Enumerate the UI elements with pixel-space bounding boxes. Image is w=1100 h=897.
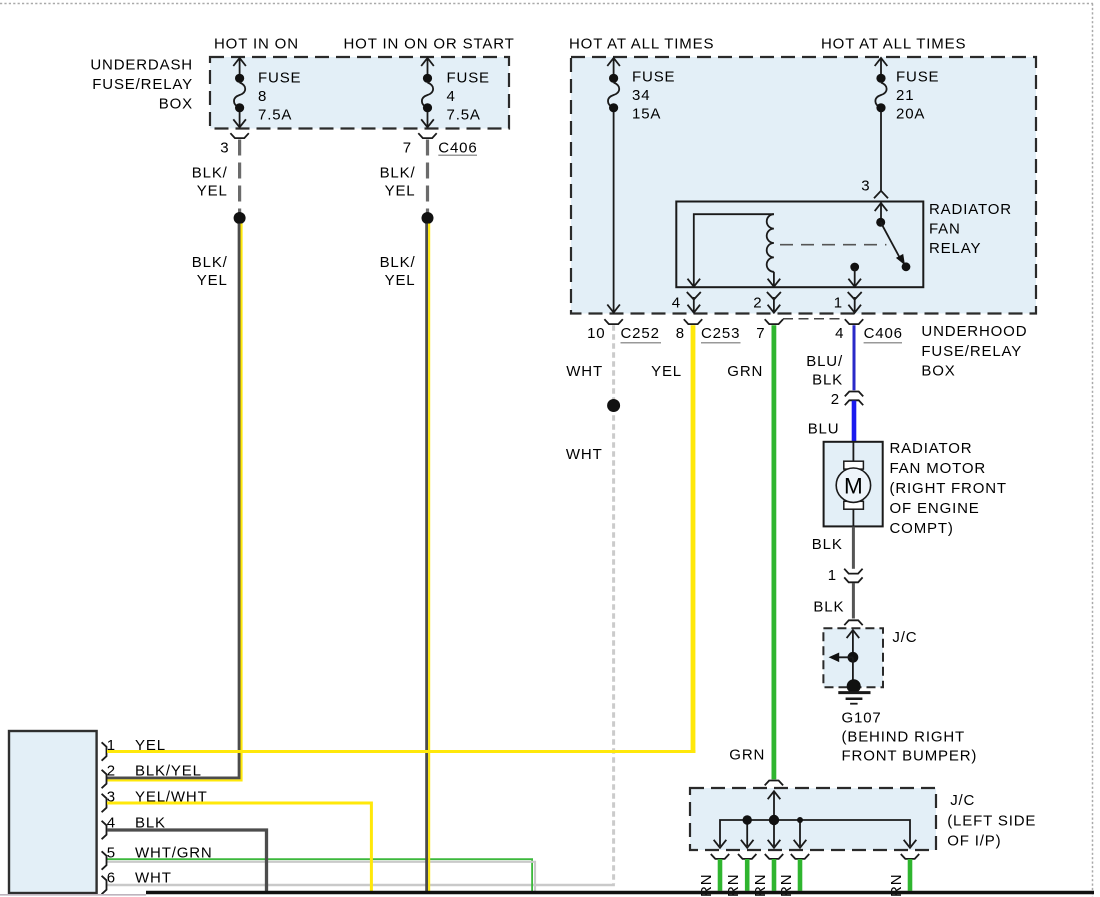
label BLK/YEL (left lower) — [192, 254, 228, 289]
svg-text:10: 10 — [587, 325, 605, 342]
svg-text:J/C: J/C — [950, 792, 975, 809]
label FUSE 4 7.5A — [447, 70, 490, 124]
wire BLK from motor — [852, 527, 855, 569]
label BLK/YEL (right lower) — [380, 254, 416, 289]
relay linkage dashed line — [780, 244, 886, 246]
wire BLK from connector pin 4 — [107, 830, 267, 891]
label pin 1 YEL — [107, 737, 166, 754]
radiator fan relay box — [676, 202, 923, 288]
svg-text:M: M — [844, 474, 863, 499]
label FUSE 8 7.5A — [258, 70, 301, 124]
relay pin 3 chevron — [874, 191, 888, 199]
svg-text:FUSE/RELAY: FUSE/RELAY — [92, 76, 193, 93]
svg-text:(BEHIND RIGHT: (BEHIND RIGHT — [842, 729, 966, 746]
svg-text:15A: 15A — [632, 106, 661, 123]
dashed connector link C406 — [783, 318, 845, 320]
label BLK/YEL (left upper) — [192, 165, 228, 200]
J/C interior node dot — [848, 652, 859, 663]
connector pin 7 bracket under underdash box — [418, 133, 436, 138]
relay switch blade — [881, 222, 905, 265]
connector pin 3 bracket under underdash box — [230, 133, 248, 138]
underdash fuse/relay box — [210, 57, 509, 129]
connector pin 3 bracket — [102, 794, 107, 812]
svg-text:4: 4 — [447, 88, 456, 105]
svg-text:BOX: BOX — [159, 96, 193, 113]
svg-text:(LEFT SIDE: (LEFT SIDE — [947, 812, 1036, 829]
label UNDERDASH FUSE/RELAY BOX — [90, 56, 193, 112]
svg-text:WHT/GRN: WHT/GRN — [135, 844, 213, 861]
svg-text:RELAY: RELAY — [929, 240, 981, 257]
relay coil feed wire — [694, 214, 774, 286]
svg-text:2: 2 — [107, 763, 116, 780]
svg-text:BLK: BLK — [812, 536, 843, 553]
svg-text:C406: C406 — [438, 139, 477, 156]
J/C I/P interior drop wires — [747, 820, 800, 846]
svg-text:2: 2 — [753, 295, 762, 312]
svg-text:HOT AT ALL TIMES: HOT AT ALL TIMES — [569, 36, 714, 53]
junction connector J/C box at G107 — [823, 628, 883, 687]
svg-text:G107: G107 — [842, 710, 882, 727]
J/C I/P bottom connector brackets — [711, 854, 919, 859]
J/C I/P bus dot C — [797, 817, 803, 823]
J/C interior left arrow — [829, 653, 853, 663]
svg-text:BLK/: BLK/ — [192, 165, 228, 182]
label connector C406 (bottom) — [864, 325, 903, 343]
fuse 21 (20A) — [875, 58, 888, 190]
wire GRN out 3 — [772, 859, 777, 891]
svg-text:4: 4 — [835, 325, 844, 342]
connector pin 2 bracket — [102, 770, 107, 788]
J/C interior up arrow — [847, 630, 860, 657]
J/C bottom ground dot — [847, 679, 861, 693]
svg-text:FRONT BUMPER): FRONT BUMPER) — [842, 748, 978, 765]
svg-text:5: 5 — [107, 844, 116, 861]
connector box (left, 6-pin) — [9, 731, 97, 893]
wire BLK/YEL solid long (from fuse 4) — [427, 224, 430, 892]
svg-text:YEL: YEL — [197, 272, 228, 289]
svg-text:UNDERHOOD: UNDERHOOD — [921, 323, 1027, 340]
label connector C252 — [621, 325, 662, 343]
svg-text:(RIGHT FRONT: (RIGHT FRONT — [890, 480, 1007, 497]
ground G107 symbol — [838, 693, 870, 704]
label pin 5 WHT/GRN — [107, 844, 213, 861]
wire WHT from connector pin 6 — [107, 884, 615, 887]
wire WHT/GRN from connector pin 5 — [107, 859, 535, 891]
relay pin 1 contact dot — [850, 263, 859, 272]
svg-text:C406: C406 — [864, 325, 903, 342]
svg-text:HOT IN ON: HOT IN ON — [214, 36, 299, 53]
inline connector 1 on black wire — [844, 569, 862, 583]
label RADIATOR FAN MOTOR (RIGHT FRONT OF ENGINE COMPT) — [890, 440, 1007, 537]
wire WHT dashed from pin 10 — [612, 325, 615, 884]
svg-text:BLK: BLK — [135, 815, 166, 832]
svg-text:HOT IN ON OR START: HOT IN ON OR START — [344, 36, 515, 53]
svg-text:BLK/: BLK/ — [380, 254, 416, 271]
splice junction on BLK/YEL left — [234, 212, 246, 224]
J/C I/P bus dot B — [769, 815, 779, 825]
connector pin 6 bracket — [102, 876, 107, 894]
relay pin 1 wire — [854, 269, 856, 287]
label pin 4 BLK — [107, 815, 166, 832]
svg-text:1: 1 — [834, 295, 843, 312]
svg-text:20A: 20A — [896, 106, 925, 123]
svg-text:3: 3 — [107, 788, 116, 805]
page border bottom (gray stub) — [0, 894, 146, 896]
wire YEL from connector pin 1 — [107, 750, 695, 753]
svg-text:GRN: GRN — [729, 747, 765, 764]
relay bottom pin arrowheads — [688, 279, 862, 287]
svg-text:7.5A: 7.5A — [447, 107, 481, 124]
J/C I/P interior up arrow — [768, 791, 781, 820]
relay socket pin 1 symbol — [848, 292, 862, 313]
wire BLK to J/C — [852, 583, 855, 619]
svg-text:YEL: YEL — [135, 737, 166, 754]
connector bracket above J/C I/P — [765, 781, 783, 786]
svg-text:3: 3 — [861, 178, 870, 195]
J/C I/P interior bus — [720, 820, 910, 846]
wire YEL vertical from pin 8 — [691, 325, 696, 753]
svg-text:FUSE: FUSE — [632, 69, 675, 86]
wire GRN out 2 — [745, 859, 750, 891]
svg-text:BLK: BLK — [812, 372, 843, 389]
svg-text:FAN: FAN — [929, 220, 961, 237]
svg-text:HOT AT ALL TIMES: HOT AT ALL TIMES — [821, 36, 966, 53]
J/C interior down wire — [852, 657, 854, 685]
svg-text:C253: C253 — [701, 325, 740, 342]
svg-text:BLK: BLK — [813, 599, 844, 616]
connector bracket pin 7 — [765, 319, 783, 324]
splice junction on BLK/YEL right — [422, 212, 434, 224]
svg-text:7: 7 — [403, 139, 412, 156]
connector bracket pin 10 C252 — [604, 319, 622, 324]
svg-text:4: 4 — [672, 295, 681, 312]
svg-text:YEL: YEL — [385, 272, 416, 289]
relay pin 3 arrow into relay — [875, 203, 888, 218]
radiator fan motor M1 — [824, 442, 883, 527]
wire YEL/WHT from connector pin 3 — [107, 803, 371, 891]
svg-text:FUSE: FUSE — [447, 70, 490, 87]
svg-text:RADIATOR: RADIATOR — [890, 440, 973, 457]
label J/C (LEFT SIDE OF I/P) — [947, 792, 1036, 850]
svg-text:COMPT): COMPT) — [890, 520, 954, 537]
wire BLU to motor — [852, 401, 857, 442]
J/C I/P bottom arrowheads — [714, 840, 917, 848]
connector pin 5 bracket — [102, 851, 107, 869]
svg-text:4: 4 — [107, 815, 116, 832]
wire GRN out 1 — [718, 859, 723, 891]
svg-text:1: 1 — [828, 567, 837, 584]
relay socket pin 2 symbol — [767, 292, 781, 313]
svg-text:BLU: BLU — [808, 420, 840, 437]
wire BLK/YEL solid to connector pin 2 — [107, 224, 242, 781]
connector pin 4 bracket — [102, 821, 107, 839]
page border right — [1092, 4, 1094, 897]
label BLK/YEL (right upper) — [380, 165, 416, 200]
wire BLU/BLK from pin 4 — [853, 325, 856, 390]
svg-text:J/C: J/C — [892, 629, 917, 646]
svg-text:1: 1 — [107, 737, 116, 754]
connector bracket above J/C G107 — [844, 620, 862, 625]
svg-text:FUSE: FUSE — [258, 70, 301, 87]
svg-text:7.5A: 7.5A — [258, 107, 292, 124]
svg-text:6: 6 — [107, 869, 116, 886]
svg-text:BLU/: BLU/ — [806, 353, 843, 370]
wire GRN vertical from pin 7 — [772, 325, 777, 779]
label RADIATOR FAN RELAY — [929, 201, 1012, 257]
label connector C406 (top) — [438, 139, 477, 156]
svg-text:YEL/WHT: YEL/WHT — [135, 788, 208, 805]
underhood fuse/relay box — [571, 57, 1036, 314]
wire GRN out 5 — [908, 859, 913, 891]
label G107 (BEHIND RIGHT FRONT BUMPER) — [842, 710, 978, 765]
wire GRN out 4 — [798, 859, 803, 891]
svg-text:WHT: WHT — [135, 869, 172, 886]
relay coil to pin 2 wire — [773, 272, 775, 287]
svg-text:YEL: YEL — [651, 363, 682, 380]
wire BLK/YEL dashed from pin 7 — [426, 140, 429, 213]
svg-text:3: 3 — [220, 139, 229, 156]
label FUSE 34 15A — [632, 69, 675, 123]
svg-text:BOX: BOX — [921, 363, 955, 380]
J/C I/P bus dot A — [743, 815, 752, 824]
svg-text:OF I/P): OF I/P) — [947, 833, 1001, 850]
connector bracket pin 8 C253 — [684, 319, 702, 324]
svg-text:RADIATOR: RADIATOR — [929, 201, 1012, 218]
svg-text:8: 8 — [258, 88, 267, 105]
svg-text:YEL: YEL — [385, 182, 416, 199]
svg-text:2: 2 — [831, 391, 840, 408]
svg-text:FUSE: FUSE — [896, 69, 939, 86]
page border bottom (black) — [146, 891, 1094, 894]
svg-text:FUSE/RELAY: FUSE/RELAY — [921, 343, 1022, 360]
label pin 3 YEL/WHT — [107, 788, 208, 805]
label connector C253 — [701, 325, 741, 343]
relay switch blade tip dot — [902, 262, 911, 271]
svg-text:21: 21 — [896, 87, 914, 104]
fuse 4 (7.5A) — [421, 58, 434, 127]
svg-text:YEL: YEL — [197, 182, 228, 199]
label UNDERHOOD FUSE/RELAY BOX — [921, 323, 1027, 380]
svg-text:8: 8 — [676, 325, 685, 342]
svg-text:FAN MOTOR: FAN MOTOR — [890, 460, 987, 477]
relay switch pivot dot — [876, 218, 885, 227]
relay coil — [767, 214, 774, 272]
svg-text:BLK/YEL: BLK/YEL — [135, 763, 202, 780]
label FUSE 21 20A — [896, 69, 939, 123]
svg-text:BLK/: BLK/ — [192, 254, 228, 271]
svg-text:7: 7 — [756, 325, 765, 342]
connector pin 1 bracket — [102, 742, 107, 760]
page border top — [0, 3, 1093, 5]
inline connector 2 on blue wire — [845, 392, 863, 406]
svg-text:34: 34 — [632, 87, 650, 104]
svg-text:WHT: WHT — [566, 446, 603, 463]
label pin 6 WHT — [107, 869, 172, 886]
svg-text:UNDERDASH: UNDERDASH — [90, 56, 193, 73]
wire BLK/YEL dashed from pin 3 — [238, 140, 241, 213]
svg-text:C252: C252 — [621, 325, 660, 342]
svg-text:OF ENGINE: OF ENGINE — [890, 500, 980, 517]
relay socket pin 4 symbol — [687, 292, 701, 313]
fuse 8 (7.5A) — [233, 58, 246, 127]
label BLU/BLK — [806, 353, 843, 389]
svg-text:GRN: GRN — [727, 363, 763, 380]
junction connector J/C box at I/P — [690, 788, 936, 850]
fuse 34 (15A) — [607, 58, 620, 313]
svg-text:WHT: WHT — [566, 363, 603, 380]
splice junction on WHT — [607, 399, 620, 412]
svg-text:BLK/: BLK/ — [380, 165, 416, 182]
label pin 2 BLK/YEL — [107, 763, 202, 780]
connector bracket pin 4 C406 — [845, 319, 863, 324]
